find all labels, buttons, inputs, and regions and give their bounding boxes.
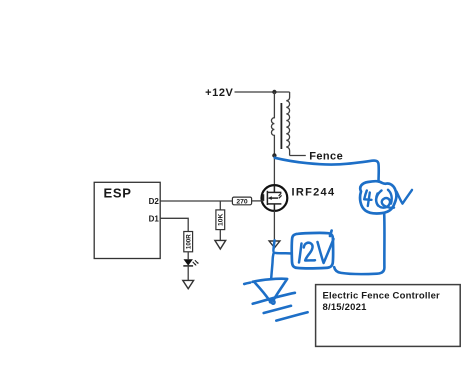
annotation V letter bbox=[397, 190, 413, 204]
wire gate lead bbox=[252, 200, 264, 202]
title block bbox=[316, 285, 461, 347]
resistor R3 100R bbox=[184, 232, 193, 252]
svg-text:Electric Fence Controller: Electric Fence Controller bbox=[323, 290, 441, 301]
wire branch to 10K bbox=[219, 201, 221, 210]
wire D2 to 270 bbox=[160, 200, 232, 202]
svg-text:270: 270 bbox=[236, 199, 248, 206]
ground arrow below 10K bbox=[215, 240, 226, 249]
annotation earth hatching dashes bbox=[253, 293, 308, 321]
annotation fence wire curve bbox=[275, 158, 379, 182]
wire source to ground bbox=[273, 211, 275, 241]
transformer T1 primary coil bbox=[271, 92, 274, 156]
wire D1 to LED branch bbox=[160, 218, 188, 231]
wire LED to ground bbox=[187, 266, 189, 281]
annotation 12V handwriting bbox=[299, 239, 334, 263]
annotation digit 4 bbox=[364, 191, 371, 207]
annotation earth electrode triangle bbox=[244, 279, 287, 304]
ground arrow below LED bbox=[183, 280, 194, 288]
annotation voltage cloud circle bbox=[360, 181, 396, 213]
svg-text:D1: D1 bbox=[149, 214, 160, 223]
wire drain bbox=[273, 156, 275, 186]
annotation wire right side down to 12V bbox=[334, 214, 384, 275]
svg-text:ESP: ESP bbox=[104, 186, 132, 201]
resistor R2 10K bbox=[216, 210, 225, 230]
svg-text:100R: 100R bbox=[185, 234, 192, 249]
wire 100R to LED bbox=[187, 252, 189, 259]
annotation scribbled digits bbox=[376, 190, 394, 208]
svg-text:8/15/2021: 8/15/2021 bbox=[323, 302, 368, 313]
svg-text:IRF244: IRF244 bbox=[292, 187, 336, 199]
annotation wire 12V to earth bbox=[271, 240, 292, 278]
transistor Q1 IRF244 N-MOSFET bbox=[262, 185, 288, 211]
svg-text:10K: 10K bbox=[218, 213, 225, 226]
junction dot top node bbox=[272, 90, 276, 94]
ground arrow below MOSFET source bbox=[269, 241, 280, 248]
wire +12V rail to transformer top bbox=[235, 91, 290, 93]
junction dot drain node bbox=[272, 153, 276, 157]
svg-text:+12V: +12V bbox=[205, 87, 233, 99]
resistor R1 270 bbox=[232, 197, 251, 206]
annotation 12V box bbox=[292, 231, 333, 269]
LED D2 indicator bbox=[183, 259, 198, 266]
transformer T1 secondary coil bbox=[286, 92, 289, 156]
wire secondary to Fence bbox=[290, 155, 306, 157]
svg-text:Fence: Fence bbox=[309, 151, 343, 163]
svg-text:D2: D2 bbox=[149, 197, 160, 206]
ESP module U1 bbox=[94, 182, 160, 258]
transformer core bbox=[280, 103, 282, 149]
wire 10K to ground bbox=[219, 230, 221, 241]
